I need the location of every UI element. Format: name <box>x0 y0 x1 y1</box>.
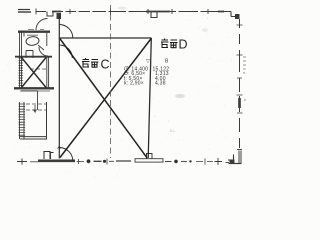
svg-text:4,38: 4,38 <box>155 80 166 86</box>
svg-text:ƙ: 2,90×: ƙ: 2,90× <box>124 80 144 86</box>
svg-text:D: D <box>179 38 188 52</box>
svg-text:▽: ▽ <box>146 59 150 65</box>
svg-text:C: C <box>101 57 110 71</box>
svg-text:ILL: ILL <box>170 128 176 133</box>
svg-text:B: B <box>165 59 169 65</box>
